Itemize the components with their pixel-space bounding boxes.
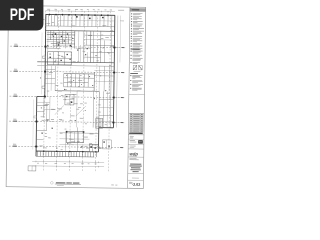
corridor walls (mid) <box>37 62 114 63</box>
keynotes header band <box>130 8 145 11</box>
PDF badge <box>0 0 43 31</box>
exterior stair bottom-left <box>28 166 36 171</box>
vertical grid lines (dashed) <box>44 11 46 171</box>
general notes sub-header <box>131 49 140 50</box>
drawn/checked info box <box>130 135 134 138</box>
issued-for dark text row <box>129 133 143 134</box>
toilet room block <box>65 94 74 105</box>
legend symbol icons <box>133 65 137 69</box>
horizontal grid lines (dashed) <box>10 46 125 48</box>
upper right-mid partitions <box>84 34 115 36</box>
address lines box <box>130 145 136 148</box>
mid-left wing partitions <box>45 69 55 71</box>
roof-below note top right <box>118 9 124 12</box>
scattered fixture marks <box>50 53 51 56</box>
top wall column markers <box>49 14 50 16</box>
sheet number box <box>129 181 132 184</box>
building outer walls <box>46 13 115 16</box>
svg-text:-2.02: -2.02 <box>132 183 140 187</box>
bottom wall stall ticks <box>37 151 39 156</box>
plan title text <box>56 182 66 183</box>
right wall column markers <box>113 47 115 49</box>
bottom dimension strings <box>32 160 104 163</box>
left wall column markers <box>44 46 46 48</box>
mid verticals to step wall <box>92 91 94 127</box>
dense upper-left fixtures <box>47 31 75 33</box>
floor diagonals <box>55 105 64 115</box>
bottom-right exterior ramp <box>102 140 111 149</box>
right-mid rooms <box>89 31 91 62</box>
revision table <box>130 113 143 132</box>
mid band extra cells <box>76 47 91 49</box>
central dock structure <box>66 132 83 143</box>
right dimension lines <box>116 16 117 128</box>
sheet outer border <box>6 6 146 189</box>
svg-text:wdp: wdp <box>130 151 139 156</box>
empty key plan box <box>129 112 144 114</box>
corridor wall (upper) <box>45 29 114 32</box>
project title block <box>129 157 136 160</box>
scattered text labels <box>51 118 54 121</box>
upper-left room cluster <box>47 34 75 36</box>
svg-text:PDF: PDF <box>10 5 35 24</box>
bottom-right service block <box>89 144 98 152</box>
left wing partitions <box>37 104 47 106</box>
right wing partitions <box>102 91 104 127</box>
title block column divider <box>128 7 130 188</box>
keynote list entries <box>131 13 132 14</box>
mid-left room cluster <box>47 52 71 65</box>
left exterior dimension lines <box>40 33 43 95</box>
stair hatch 2 <box>96 118 103 128</box>
general notes paragraph entries <box>131 51 132 52</box>
top dimension string <box>46 10 115 13</box>
lower-middle partitions <box>60 132 99 135</box>
top rooms shelving line <box>59 19 115 22</box>
consultant row with black logo <box>130 139 135 142</box>
second sub-header <box>130 72 138 75</box>
left wall canopies <box>42 56 45 58</box>
top retail room partitions <box>45 25 114 28</box>
divider above key plan box <box>129 93 144 95</box>
center room cluster <box>64 73 94 75</box>
